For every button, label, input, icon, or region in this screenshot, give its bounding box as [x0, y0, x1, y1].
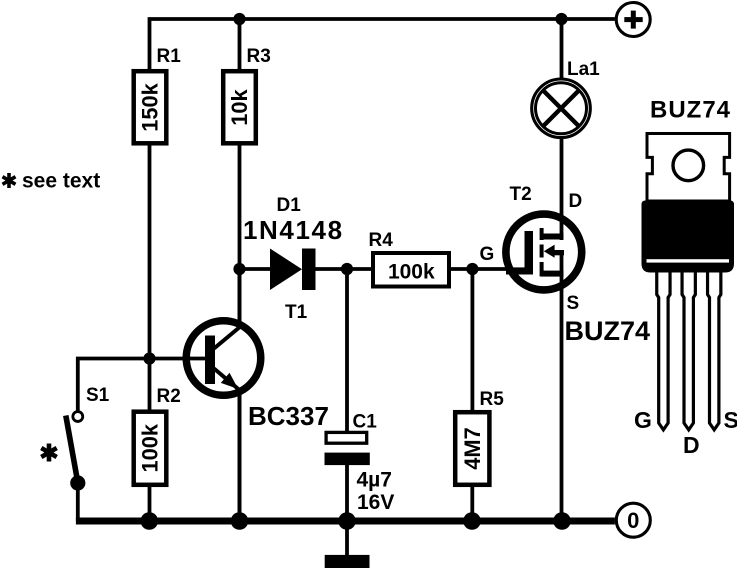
svg-text:4M7: 4M7	[460, 427, 485, 469]
wire bottom rail	[76, 518, 615, 525]
resistor R3	[223, 46, 271, 143]
transistor T1 (BC337)	[186, 269, 329, 521]
svg-text:R5: R5	[480, 389, 505, 410]
node rail junction T1 emitter column	[231, 512, 249, 530]
capacitor C1	[325, 269, 395, 521]
svg-text:R2: R2	[157, 386, 181, 407]
resistor R2	[134, 386, 181, 485]
wire R3 column	[238, 19, 242, 269]
wire top rail	[150, 19, 615, 69]
svg-text:G: G	[480, 244, 495, 265]
svg-text:T1: T1	[285, 302, 308, 323]
svg-text:see text: see text	[22, 170, 100, 193]
resistor R4	[369, 230, 450, 287]
svg-text:R4: R4	[369, 230, 394, 251]
svg-text:10k: 10k	[227, 88, 252, 125]
package leg S	[708, 273, 721, 430]
terminal 0	[616, 503, 650, 537]
svg-text:D: D	[569, 191, 583, 212]
node diode row junction at R3 column	[233, 263, 245, 275]
svg-text:S: S	[567, 293, 580, 314]
lamp La1	[532, 19, 600, 240]
package tab with mounting hole	[647, 134, 730, 202]
svg-text:S: S	[724, 407, 737, 433]
svg-text:S1: S1	[86, 385, 110, 406]
transistor T2 (MOSFET BUZ74)	[506, 184, 650, 521]
diode D1	[243, 195, 344, 290]
svg-text:G: G	[634, 407, 652, 433]
node rail junction C1 column	[338, 512, 356, 530]
svg-text:4µ7: 4µ7	[357, 469, 392, 492]
node rail junction R5 column	[463, 512, 481, 530]
svg-text:BUZ74: BUZ74	[650, 97, 731, 124]
resistor R1	[134, 46, 182, 143]
node rail junction T2 source column	[553, 512, 571, 530]
node base row junction at R1/R2 column	[143, 352, 155, 364]
wire diode row	[240, 267, 513, 271]
node junction C1 column on diode row	[341, 263, 353, 275]
wire R1 column	[148, 146, 152, 522]
node top rail junction at R3	[233, 13, 245, 25]
svg-text:100k: 100k	[138, 423, 163, 472]
svg-text:BC337: BC337	[248, 401, 329, 431]
svg-text:100k: 100k	[388, 261, 435, 284]
package leg G	[657, 273, 670, 430]
svg-text:R3: R3	[247, 46, 271, 67]
svg-text:La1: La1	[567, 59, 600, 80]
node top rail junction at lamp column	[555, 13, 567, 25]
note see text	[3, 170, 101, 193]
svg-text:0: 0	[627, 508, 639, 533]
wire base row	[78, 359, 213, 411]
svg-text:C1: C1	[353, 412, 378, 433]
node junction gate row / R5 column	[466, 263, 478, 275]
svg-text:D1: D1	[277, 195, 302, 216]
package body	[642, 201, 735, 273]
note asterisk for S1	[41, 444, 56, 462]
svg-text:1N4148: 1N4148	[243, 215, 344, 245]
switch S1	[66, 385, 110, 521]
resistor R5	[455, 269, 504, 521]
svg-text:R1: R1	[157, 46, 182, 67]
ground	[325, 521, 370, 568]
svg-text:T2: T2	[510, 184, 532, 205]
svg-text:150k: 150k	[138, 82, 163, 131]
svg-text:BUZ74: BUZ74	[565, 316, 651, 346]
node rail junction S1... R2 column	[141, 512, 159, 530]
terminal + (plus)	[616, 3, 650, 37]
svg-text:16V: 16V	[357, 491, 394, 514]
package leg D	[682, 273, 695, 430]
svg-text:D: D	[683, 432, 700, 458]
